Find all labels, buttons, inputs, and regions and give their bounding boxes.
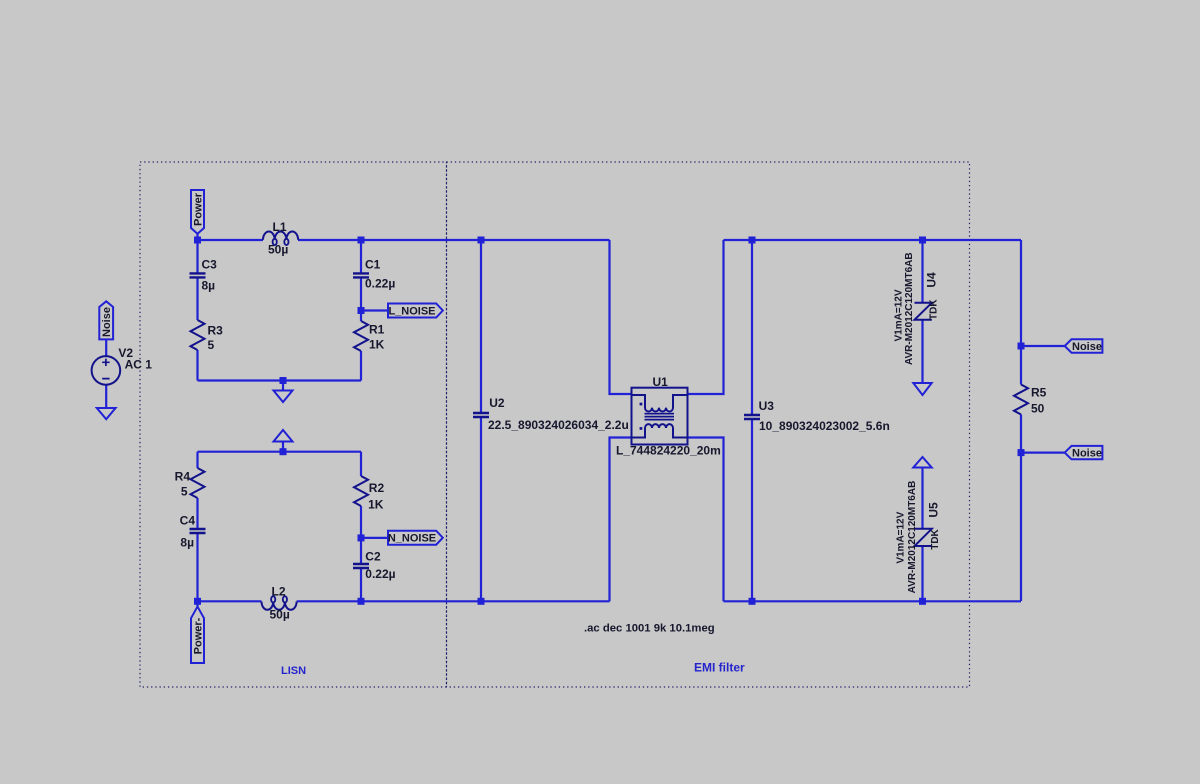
- junction upper ground: [280, 377, 287, 384]
- junction lower ground: [280, 448, 287, 455]
- wire top rail to R2: [360, 452, 362, 476]
- svg-text:0.22µ: 0.22µ: [365, 567, 395, 581]
- label C2 value: [365, 550, 395, 582]
- svg-text:8µ: 8µ: [180, 536, 194, 550]
- wire top rail to R4: [196, 452, 198, 468]
- resistor R3: [191, 320, 205, 350]
- LISN box dotted border: [140, 162, 447, 687]
- svg-text:8µ: 8µ: [202, 279, 216, 293]
- label U5 AVR: [907, 481, 918, 594]
- junction Power- / bottom rail: [194, 598, 201, 605]
- svg-text:L_NOISE: L_NOISE: [388, 306, 435, 318]
- net flag Noise lower right: [1065, 446, 1103, 459]
- wire transformer bottom-left drop: [610, 438, 632, 602]
- junction U2 / bottom rail: [478, 598, 485, 605]
- ground below V2: [97, 408, 116, 419]
- wire R2 to N_NOISE junction: [360, 506, 362, 538]
- svg-text:R4: R4: [175, 470, 191, 484]
- wire Power- flag stub: [196, 601, 198, 606]
- svg-text:C4: C4: [180, 514, 196, 528]
- wire bottom rail left (Power- to L2): [198, 600, 262, 602]
- label U4 TDK: [928, 299, 939, 320]
- ground below LISN upper cell: [274, 391, 293, 403]
- wire U5 branch lower: [921, 546, 923, 601]
- svg-text:U2: U2: [489, 396, 505, 410]
- text Noise flag lower right: [1072, 448, 1102, 460]
- svg-text:LISN: LISN: [281, 665, 306, 677]
- port flag Power-: [191, 607, 204, 664]
- svg-text:5: 5: [181, 485, 188, 499]
- svg-text:V1mA=12V: V1mA=12V: [896, 511, 907, 563]
- label U5 TDK: [930, 528, 941, 549]
- capacitor C1: [353, 273, 369, 277]
- junction U2 / top rail: [478, 237, 485, 244]
- svg-text:Power: Power: [193, 192, 205, 226]
- capacitor U2: [473, 413, 489, 417]
- wire V2 source to ground: [105, 385, 107, 408]
- wire top rail (L1 to transformer left corner): [298, 239, 610, 241]
- svg-text:50: 50: [1031, 402, 1045, 416]
- svg-text:R2: R2: [369, 481, 385, 495]
- wire noise stub upper: [1021, 345, 1065, 347]
- resistor R1: [354, 321, 368, 351]
- junction L_NOISE: [358, 307, 365, 314]
- junction C2 / bottom rail: [358, 598, 365, 605]
- junction noise lower / right rail: [1018, 449, 1025, 456]
- capacitor C2: [353, 564, 369, 568]
- svg-text:L2: L2: [272, 585, 286, 599]
- ground above U5: [913, 457, 931, 468]
- EMI filter box dotted border: [447, 162, 970, 687]
- comment EMI filter: [694, 661, 745, 675]
- svg-text:TDK: TDK: [928, 299, 939, 320]
- label U5: [927, 502, 941, 518]
- varistor U4: [915, 303, 932, 320]
- wire lower ground stub: [282, 442, 284, 452]
- label U4: [924, 272, 938, 288]
- wire right rail upper: [1020, 240, 1022, 385]
- wire R1 to lower rail: [360, 351, 362, 381]
- label U4 AVR: [904, 252, 915, 365]
- comment LISN: [281, 665, 306, 677]
- label L1 value: [268, 220, 288, 257]
- text Noise flag upper right: [1072, 341, 1102, 353]
- wire lower cell top rail: [198, 451, 362, 453]
- resistor R4: [191, 468, 205, 498]
- wire noise stub lower: [1021, 452, 1065, 454]
- wire U4 branch lower: [921, 320, 923, 383]
- svg-text:22.5_890324026034_2.2u: 22.5_890324026034_2.2u: [488, 418, 629, 432]
- junction Power / top rail: [194, 237, 201, 244]
- svg-text:0.22µ: 0.22µ: [365, 277, 395, 291]
- wire top rail left (Power to L1): [198, 239, 264, 241]
- label R5 value: [1031, 386, 1047, 416]
- wire V2 noise flag to source: [105, 339, 107, 356]
- svg-text:C2: C2: [365, 550, 381, 564]
- wire U2 branch upper: [480, 240, 482, 413]
- wire bottom rail right: [724, 600, 1022, 602]
- svg-text:1K: 1K: [368, 498, 384, 512]
- wire C3 branch upper: [196, 240, 198, 273]
- wire top rail right (transformer to right rail corner): [724, 239, 1022, 241]
- wire Power flag stub: [196, 234, 198, 240]
- label U3 value: [759, 399, 890, 433]
- wire upper cell bottom rail: [198, 379, 362, 381]
- wire U4 branch upper: [921, 240, 923, 303]
- label U5 V1mA: [896, 511, 907, 563]
- wire C1 branch upper: [360, 240, 362, 273]
- net flag L_NOISE: [388, 304, 443, 318]
- wire right rail lower: [1020, 415, 1022, 602]
- junction U4 / top rail: [919, 237, 926, 244]
- junction U5 / bottom rail: [919, 598, 926, 605]
- label C1 value: [365, 258, 395, 291]
- net flag Noise upper right: [1065, 339, 1103, 352]
- junction U3 / top rail: [749, 237, 756, 244]
- wire U3 branch upper: [751, 240, 753, 415]
- wire junction to R1: [360, 311, 362, 322]
- transformer U1: [632, 388, 688, 445]
- svg-text:EMI filter: EMI filter: [694, 661, 745, 675]
- wire junction to C2: [360, 538, 362, 564]
- svg-text:5: 5: [208, 338, 215, 352]
- svg-text:U5: U5: [927, 502, 941, 518]
- label R3 value: [208, 324, 224, 353]
- svg-text:50µ: 50µ: [268, 243, 288, 257]
- capacitor C4: [190, 529, 206, 533]
- ground above LISN lower cell: [274, 430, 293, 442]
- svg-text:U1: U1: [653, 375, 669, 389]
- junction N_NOISE: [358, 534, 365, 541]
- label U4 V1mA: [894, 289, 905, 341]
- svg-text:AC 1: AC 1: [125, 358, 153, 372]
- svg-text:10_890324023002_5.6n: 10_890324023002_5.6n: [759, 419, 890, 433]
- wire L_NOISE flag stub: [361, 309, 388, 311]
- svg-text:N_NOISE: N_NOISE: [388, 533, 436, 545]
- inductor L1: [263, 232, 298, 246]
- svg-text:U3: U3: [759, 399, 775, 413]
- svg-text:AVR-M2012C120MT6AB: AVR-M2012C120MT6AB: [904, 252, 915, 365]
- wire R3 to lower rail: [196, 350, 198, 381]
- label U2 value: [488, 396, 629, 432]
- svg-text:Noise: Noise: [101, 307, 113, 337]
- net flag N_NOISE: [388, 531, 443, 545]
- junction C1 / top rail: [358, 237, 365, 244]
- varistor U5: [915, 529, 932, 546]
- text Noise flag at V2: [101, 307, 113, 337]
- label U1 value: [616, 375, 721, 458]
- resistor R5: [1014, 385, 1028, 415]
- text Power- flag: [193, 617, 205, 654]
- wire U3 branch lower: [751, 420, 753, 602]
- spice directive .ac: [584, 623, 715, 635]
- svg-text:Noise: Noise: [1072, 341, 1102, 353]
- capacitor C3: [190, 273, 206, 277]
- svg-text:AVR-M2012C120MT6AB: AVR-M2012C120MT6AB: [907, 481, 918, 594]
- junction U3 / bottom rail: [749, 598, 756, 605]
- svg-text:U4: U4: [924, 272, 938, 288]
- svg-text:R1: R1: [369, 323, 385, 337]
- svg-text:R3: R3: [208, 324, 224, 338]
- svg-text:L1: L1: [273, 220, 287, 234]
- svg-text:Power-: Power-: [193, 617, 205, 654]
- voltage source V2: [92, 356, 121, 385]
- port flag Power: [191, 190, 204, 234]
- wire C1 to L_NOISE junction: [360, 278, 362, 311]
- svg-text:L_744824220_20m: L_744824220_20m: [616, 444, 721, 458]
- wire C3 to R3: [196, 278, 198, 321]
- junction noise upper / right rail: [1018, 343, 1025, 350]
- svg-text:C1: C1: [365, 258, 381, 272]
- label L2 value: [270, 585, 290, 622]
- text L_NOISE flag: [388, 306, 435, 318]
- inductor L2: [262, 596, 297, 610]
- svg-text:1K: 1K: [369, 338, 385, 352]
- svg-text:C3: C3: [202, 258, 218, 272]
- label V2 value: [118, 346, 152, 372]
- wire U2 branch lower: [480, 418, 482, 602]
- wire N_NOISE flag stub: [361, 537, 388, 539]
- label C3 value: [202, 258, 218, 293]
- wire transformer top-left drop: [610, 240, 632, 394]
- label R4 value: [175, 470, 191, 499]
- label R2 value: [368, 481, 384, 512]
- wire U5 branch upper: [921, 468, 923, 529]
- text N_NOISE flag: [388, 533, 436, 545]
- svg-text:R5: R5: [1031, 386, 1047, 400]
- resistor R2: [354, 476, 368, 506]
- svg-text:Noise: Noise: [1072, 448, 1102, 460]
- wire R4 to C4: [196, 498, 198, 529]
- wire transformer bottom-right: [688, 438, 724, 602]
- svg-text:V1mA=12V: V1mA=12V: [894, 289, 905, 341]
- svg-text:TDK: TDK: [930, 528, 941, 549]
- ground below U4: [913, 383, 931, 395]
- text Power flag: [193, 192, 205, 226]
- svg-text:.ac dec 1001 9k 10.1meg: .ac dec 1001 9k 10.1meg: [584, 623, 715, 635]
- wire C2 to bottom rail: [360, 569, 362, 602]
- port flag Noise at V2: [99, 301, 113, 339]
- wire upper ground stub: [282, 381, 284, 391]
- svg-text:50µ: 50µ: [270, 608, 290, 622]
- capacitor U3: [744, 415, 760, 419]
- label C4 value: [180, 514, 196, 550]
- wire bottom rail (L2 to transformer left): [297, 600, 610, 602]
- wire transformer top-right rise: [688, 240, 724, 394]
- wire C4 to bottom rail: [196, 534, 198, 602]
- label R1 value: [369, 323, 385, 352]
